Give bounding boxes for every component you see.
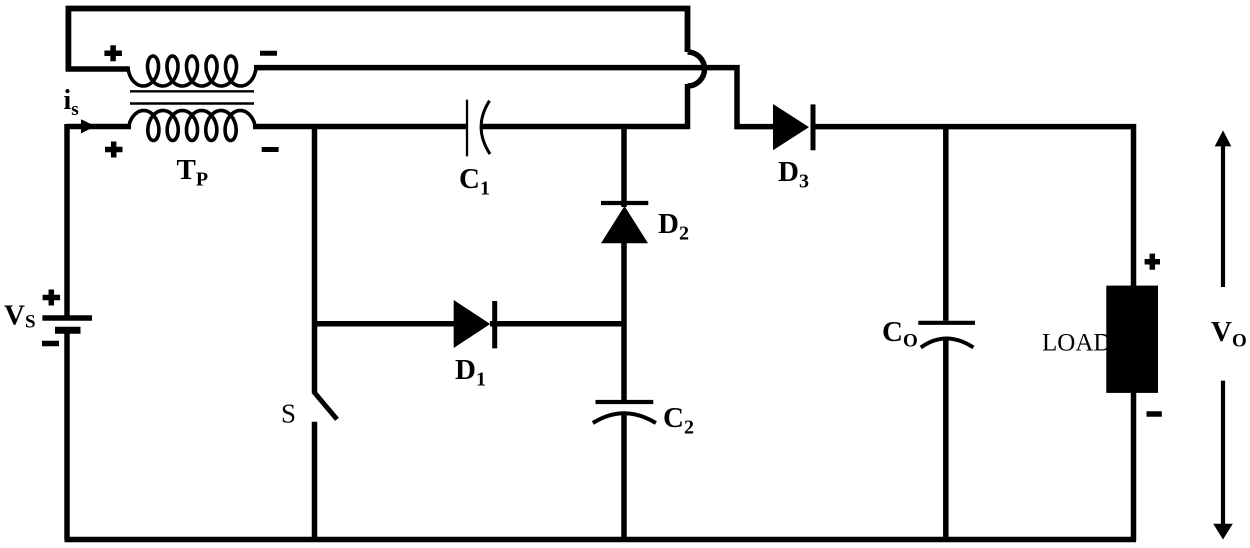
wire C2 to bottom rail <box>621 414 627 542</box>
wire source branch down to battery <box>64 124 70 316</box>
capacitor C1 right curved plate <box>481 101 490 154</box>
diode D2 triangle <box>601 206 648 243</box>
transformer TP core lines <box>130 91 254 103</box>
capacitor Co curved plate <box>921 339 974 348</box>
wire Co branch top <box>943 124 949 321</box>
wire secondary top lead right to corner and down <box>254 68 774 127</box>
label - bottom winding right <box>262 147 279 152</box>
arrow VO up line <box>1221 144 1225 287</box>
load block <box>1106 286 1158 393</box>
arrow VO up head <box>1215 130 1232 146</box>
switch S blade <box>313 391 337 419</box>
wire D1 branch right <box>490 321 626 327</box>
wire D3 output to load corner <box>812 127 1134 287</box>
wire primary lead from source node <box>67 124 131 130</box>
wire load to bottom rail <box>1131 392 1137 541</box>
capacitor C2 straight plate <box>596 400 654 404</box>
wire middle rail to C1 <box>253 124 466 130</box>
capacitor C1 left plate <box>466 100 468 157</box>
arrow VO down line <box>1221 381 1225 526</box>
diode D3 bar <box>811 104 816 150</box>
label + battery <box>43 290 61 306</box>
label + load <box>1145 254 1160 270</box>
label + top winding left <box>104 45 122 61</box>
capacitor Co straight plate <box>918 321 975 325</box>
wire D2 branch top <box>621 124 627 207</box>
wire bottom rail <box>65 537 1137 543</box>
transformer TP bottom winding <box>129 111 255 141</box>
diode D2 bar <box>601 201 648 205</box>
wire D2 to C2 <box>621 242 627 403</box>
wire secondary top lead left <box>66 66 128 72</box>
svg-text:S: S <box>281 399 296 429</box>
diode D1 bar <box>492 301 497 348</box>
transformer TP top winding <box>128 56 256 86</box>
wire switch branch lower <box>312 422 318 541</box>
wire battery to bottom rail <box>64 333 70 540</box>
wire hop vertical to middle rail <box>685 84 691 129</box>
wire Co to bottom rail <box>943 339 949 541</box>
current arrow is <box>81 119 96 133</box>
wire middle rail C1 to hop junction <box>482 124 691 130</box>
arrow VO down head <box>1213 524 1233 540</box>
label - top winding right <box>260 51 277 56</box>
diode D1 triangle <box>454 300 491 348</box>
capacitor C2 curved plate <box>593 413 656 423</box>
wire hop over secondary lead <box>688 52 705 86</box>
label + bottom winding left <box>105 142 123 158</box>
wire switch branch upper <box>312 124 318 392</box>
label - battery <box>42 341 59 347</box>
battery VS long plate <box>42 315 92 321</box>
svg-text:LOAD: LOAD <box>1042 330 1111 357</box>
diode D3 triangle <box>773 104 809 150</box>
label - load <box>1147 411 1162 417</box>
wire top rail <box>68 9 687 72</box>
battery VS short plate <box>55 327 81 334</box>
wire D1 branch left <box>315 321 456 327</box>
